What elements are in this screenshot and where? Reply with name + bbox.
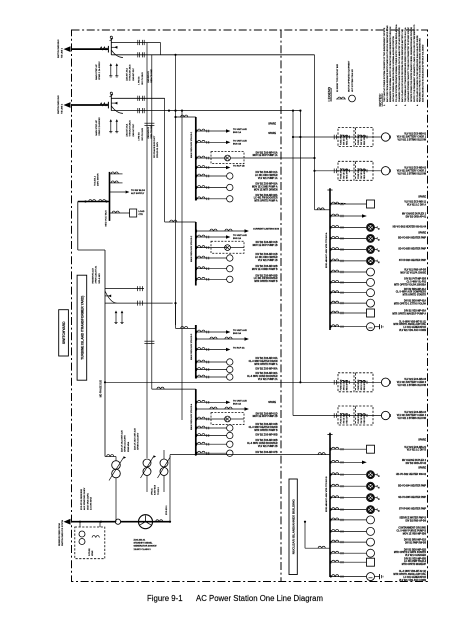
svg-text:VLV 021 LC DIV B: VLV 021 LC DIV B xyxy=(407,450,427,452)
svg-text:LC 401 CIRC WATER: LC 401 CIRC WATER xyxy=(255,256,278,259)
ES1 branch motor circle 2 xyxy=(196,186,198,189)
reserve feed arrowhead xyxy=(64,519,71,525)
svg-text:500-6.9KV: 500-6.9KV xyxy=(99,273,101,284)
svg-text:ZAS-UT-01A UNIT AUX: ZAS-UT-01A UNIT AUX xyxy=(121,430,124,452)
svg-text:MV CHASE DUPLEX 1: MV CHASE DUPLEX 1 xyxy=(402,213,427,216)
svg-text:TO UNIT AUX: TO UNIT AUX xyxy=(233,128,247,131)
wire down-leg x77.8 xyxy=(77,202,79,251)
ES3 branch arrow 1 xyxy=(196,331,198,334)
svg-text:DIV B2 ZOS-MP-02A: DIV B2 ZOS-MP-02A xyxy=(256,183,278,186)
svg-text:FUSE XFER: FUSE XFER xyxy=(358,168,360,179)
svg-text:REG XFMR: REG XFMR xyxy=(364,413,366,424)
svg-text:DIV B2 ZOS-MP-01B: DIV B2 ZOS-MP-01B xyxy=(256,254,278,256)
ES4 branch motor circle 4 xyxy=(196,452,198,455)
svg-text:TO RW BLDG: TO RW BLDG xyxy=(131,190,145,192)
bus A row 11 load center xyxy=(330,312,332,315)
svg-text:480V SWGR: 480V SWGR xyxy=(98,173,100,186)
wire MD phase bus drop x105 xyxy=(104,250,106,457)
svg-text:SWITCHYARD: SWITCHYARD xyxy=(62,321,66,344)
svg-text:BUS 4A: BUS 4A xyxy=(233,403,241,406)
ES bus 4 (1PB-ES-4) xyxy=(195,389,197,455)
svg-text:ISO PH BUS: ISO PH BUS xyxy=(142,128,144,141)
svg-text:SW 1E UPS: SW 1E UPS xyxy=(344,379,346,390)
svg-text:DIV B2 BRS-MP-01A: DIV B2 BRS-MP-01A xyxy=(404,288,426,291)
svg-text:CTR: CTR xyxy=(139,214,144,216)
svg-text:VLV 021 PUMP 1A: VLV 021 PUMP 1A xyxy=(258,177,278,180)
wire drop x314.5 (to feeder B and bus A) xyxy=(314,55,316,210)
wire drop x300.4 (to feeder C) xyxy=(299,111,301,383)
svg-text:HD-VO-B02 HEATER 009-01-04: HD-VO-B02 HEATER 009-01-04 xyxy=(393,226,427,229)
svg-text:FUSE XFER: FUSE XFER xyxy=(341,134,343,145)
drawing frame border (dash-dot) xyxy=(72,30,428,582)
svg-text:TO RCP 2A: TO RCP 2A xyxy=(233,347,245,350)
ES1 feed breaker xyxy=(176,116,196,118)
svg-text:MTR OPRTD 2 ANTS STARTR: MTR OPRTD 2 ANTS STARTR xyxy=(394,551,426,554)
generator breaker cluster 2 xyxy=(111,102,117,104)
ES1 branch motor circle 1 xyxy=(196,175,198,178)
svg-text:UNIT AUX XFMRS ALL BKRS SHOWN: UNIT AUX XFMRS ALL BKRS SHOWN IN NORMAL … xyxy=(392,36,395,102)
svg-text:VLV 021 ECS-MB-01: VLV 021 ECS-MB-01 xyxy=(404,134,427,136)
disconnect bar T1 xyxy=(107,46,109,53)
svg-text:TO UNIT AUX: TO UNIT AUX xyxy=(233,400,247,403)
svg-text:DIV B2 ZOS-MP-07B: DIV B2 ZOS-MP-07B xyxy=(256,452,278,454)
main transformer riser 1 xyxy=(110,38,112,55)
svg-text:DIV B2 ZOS-MP-06A: DIV B2 ZOS-MP-06A xyxy=(256,372,278,375)
svg-text:SW 1E UPS: SW 1E UPS xyxy=(361,412,363,423)
svg-text:VLV 021 ECS-MB-04: VLV 021 ECS-MB-04 xyxy=(404,411,427,414)
svg-text:REG XFMR: REG XFMR xyxy=(347,134,349,145)
svg-text:SPARE: SPARE xyxy=(418,466,426,469)
ES bus 3 (1PB-ES-3) xyxy=(195,325,197,379)
future equipment dashed box xyxy=(75,527,105,559)
svg-text:VLV 021 1 BTRNS BLDOW: VLV 021 1 BTRNS BLDOW xyxy=(397,418,426,420)
isophase bus line 2b xyxy=(111,110,300,112)
svg-text:ISO PH BUS: ISO PH BUS xyxy=(142,72,144,85)
svg-text:DIV B2 BDS-MP-02A: DIV B2 BDS-MP-02A xyxy=(404,300,426,303)
svg-text:DIV B2 RNS-AP-B6: DIV B2 RNS-AP-B6 xyxy=(405,519,426,522)
svg-text:MOV 1E RCP PUMP 1B: MOV 1E RCP PUMP 1B xyxy=(253,245,278,247)
svg-text:THE NORMAL AUX TRANSFORMERS AR: THE NORMAL AUX TRANSFORMERS ARE SIZED FO… xyxy=(404,27,407,102)
wire drop x293 (feeder A to D) xyxy=(292,111,294,416)
ES2 branch motor circle 2 xyxy=(196,267,198,270)
svg-text:SPARE: SPARE xyxy=(418,232,426,235)
bus B row 2 arrow xyxy=(330,461,332,464)
svg-text:MOV 1E VOLPA CHASE: MOV 1E VOLPA CHASE xyxy=(400,272,426,275)
ES4 branch RCP 2B dashed box xyxy=(196,418,198,421)
reserve feed line from switchyard xyxy=(71,521,170,523)
svg-text:1PB-ES-01 24KV: 1PB-ES-01 24KV xyxy=(157,141,159,158)
svg-text:DIV B2 PHT-MP-3B5: DIV B2 PHT-MP-3B5 xyxy=(404,279,426,281)
svg-text:REG XFMR: REG XFMR xyxy=(347,168,349,179)
isophase bus line 2a xyxy=(111,97,164,99)
svg-text:AUX XFMR 500-13.8KV: AUX XFMR 500-13.8KV xyxy=(83,487,86,510)
bus B row 7 pump circle xyxy=(330,519,332,522)
wire x160.5 connector xyxy=(160,43,162,55)
bus B standby feed xyxy=(304,522,306,549)
reserve xfmr arresters xyxy=(115,313,117,323)
legend motor symbol xyxy=(349,95,356,102)
svg-text:MAIN STEP-UP: MAIN STEP-UP xyxy=(95,64,98,80)
svg-text:30/40 MVA: 30/40 MVA xyxy=(127,441,130,452)
svg-text:THROUGH-BUS: THROUGH-BUS xyxy=(130,120,132,137)
zone label TURBINE ISLAND /TRANSFORMER YARD xyxy=(77,275,87,380)
svg-text:DIV B2 BRS-MP-01B: DIV B2 BRS-MP-01B xyxy=(404,540,426,542)
svg-text:SW 1E UPS: SW 1E UPS xyxy=(344,134,346,145)
bus A row 2 arrow xyxy=(330,215,332,218)
svg-text:REG XFMR: REG XFMR xyxy=(364,380,366,391)
svg-text:XFMR: XFMR xyxy=(92,550,94,556)
svg-text:CL-3 480V SL-P32: CL-3 480V SL-P32 xyxy=(406,280,426,283)
svg-text:VLV 021 PUMP 2B: VLV 021 PUMP 2B xyxy=(258,446,278,448)
svg-text:BUS 1A: BUS 1A xyxy=(233,131,241,134)
svg-text:DIV B2 BDS-MP-02B: DIV B2 BDS-MP-02B xyxy=(404,549,426,551)
svg-text:ZAS-MT-01C: ZAS-MT-01C xyxy=(132,68,135,81)
svg-text:VLV 021 BATTERY CHGR 1: VLV 021 BATTERY CHGR 1 xyxy=(397,136,427,139)
ES3 tie breaker line xyxy=(196,338,198,341)
UAT B windings xyxy=(160,459,168,467)
svg-text:ZAS-MT-01C: ZAS-MT-01C xyxy=(132,123,135,136)
svg-text:MTR OPRTD PUMP B: MTR OPRTD PUMP B xyxy=(254,281,278,283)
svg-text:VLV 021 ECS-MB-03: VLV 021 ECS-MB-03 xyxy=(404,379,427,381)
open breaker circle on reserve line xyxy=(115,519,120,524)
bus B row 6 motor xyxy=(330,508,332,511)
svg-text:MAIN GEN BUS 1PB-ES-3: MAIN GEN BUS 1PB-ES-3 xyxy=(190,333,193,360)
ES2 feed breaker xyxy=(165,221,196,223)
svg-text:CL-3 480V COND BOOSTER: CL-3 480V COND BOOSTER xyxy=(247,375,278,378)
svg-text:MTR OPRTD PUMP A: MTR OPRTD PUMP A xyxy=(254,200,277,203)
svg-text:VLV 021 1 BTRNS BLDOW: VLV 021 1 BTRNS BLDOW xyxy=(397,385,426,387)
ES3 branch motor circle 3 xyxy=(196,376,198,379)
svg-text:REG XFMR: REG XFMR xyxy=(364,134,366,145)
svg-text:35/47 MVA OA/FA: 35/47 MVA OA/FA xyxy=(86,493,89,510)
svg-text:1 PB ES: 1 PB ES xyxy=(139,132,141,141)
ES4 tie breaker line xyxy=(196,408,198,411)
legend breaker symbol xyxy=(338,97,342,99)
bus B row 12 vital xfmr xyxy=(330,575,332,578)
svg-text:ST-VP-B23 HEATER PMP: ST-VP-B23 HEATER PMP xyxy=(399,259,427,262)
bus B row 8 pump circle xyxy=(330,530,332,533)
svg-text:VLV 021 ECS-MB-21: VLV 021 ECS-MB-21 xyxy=(404,447,427,449)
svg-text:CURRENT LIMITING BUS: CURRENT LIMITING BUS xyxy=(253,229,280,231)
feeder A class-1E battery charger 1 xyxy=(293,136,381,138)
svg-text:NUCLEAR ISLAND/ANNEX BUILDING: NUCLEAR ISLAND/ANNEX BUILDING xyxy=(292,499,296,555)
svg-text:CL-3 480V AUX COMPRESS: CL-3 480V AUX COMPRESS xyxy=(396,291,427,294)
svg-text:VLV 021 BATTERY CHGR 2: VLV 021 BATTERY CHGR 2 xyxy=(397,169,427,172)
UAT A windings xyxy=(143,459,151,467)
svg-text:BUS 1B: BUS 1B xyxy=(233,144,241,146)
ES3 branch motor circle 1 xyxy=(196,361,198,364)
svg-text:ZAS-MT-01A: ZAS-MT-01A xyxy=(126,123,129,136)
svg-text:MTR OPRTD 1 ETTHS VOLPA: MTR OPRTD 1 ETTHS VOLPA xyxy=(394,303,426,306)
svg-text:MAIN STEP-UP: MAIN STEP-UP xyxy=(95,120,98,136)
bus A row 7 pump circle xyxy=(330,271,332,274)
bus A row 9 pump circle xyxy=(330,291,332,294)
svg-text:SW 1E UPS: SW 1E UPS xyxy=(344,412,346,423)
svg-text:MOV 1E MTR DRIVEN: MOV 1E MTR DRIVEN xyxy=(254,189,278,191)
svg-text:OFFSITE POWER THE ONSITE STAND: OFFSITE POWER THE ONSITE STANDBY DIESEL … xyxy=(410,26,413,102)
svg-text:XFMR 2 24-500KV: XFMR 2 24-500KV xyxy=(99,117,101,136)
svg-text:SUPPLY THE PERMANENT NONSAFETY: SUPPLY THE PERMANENT NONSAFETY LOADS UPO… xyxy=(413,24,416,102)
svg-text:MTR OPRTD VOLPA 2SHSBA: MTR OPRTD VOLPA 2SHSBA xyxy=(394,283,426,286)
svg-text:XFMR ZAS-RT-01: XFMR ZAS-RT-01 xyxy=(95,265,98,283)
svg-text:ZOS-ES-1: ZOS-ES-1 xyxy=(166,505,168,515)
svg-text:LC 401 CIRC WATER: LC 401 CIRC WATER xyxy=(255,174,278,177)
ES1 branch RCP 1A dashed box xyxy=(196,157,198,160)
svg-text:CL-3 480V VBS-MT-02 (2): CL-3 480V VBS-MT-02 (2) xyxy=(399,570,426,573)
ES2 branch RCP 2A dashed box xyxy=(196,246,198,249)
svg-text:TURBINE ISLAND /TRANSFORMER YA: TURBINE ISLAND /TRANSFORMER YARD) xyxy=(80,296,84,360)
aux sub-bus feed from left xyxy=(78,201,110,203)
svg-text:1 PB ES: 1 PB ES xyxy=(139,76,141,85)
svg-text:SPARE: SPARE xyxy=(418,439,426,442)
generator output riser x170 xyxy=(169,455,171,522)
svg-text:EDS2-MB-MCC 480V MTR CTR BUS B: EDS2-MB-MCC 480V MTR CTR BUS B xyxy=(326,476,328,512)
svg-text:THE PLANT AC POWER SYSTEM CONS: THE PLANT AC POWER SYSTEM CONSISTS OF TW… xyxy=(383,27,386,102)
svg-text:DIV B2 ZOS-MP-05B: DIV B2 ZOS-MP-05B xyxy=(256,435,278,437)
svg-text:CL-3 480V HEATER DRAIN: CL-3 480V HEATER DRAIN xyxy=(249,360,278,363)
reserve aux transformer group xyxy=(105,288,137,290)
svg-text:EACH CLASS 1E DC BUS IS FED FR: EACH CLASS 1E DC BUS IS FED FROM ITS OWN… xyxy=(401,29,404,102)
wire maintenance tie drop x182 xyxy=(181,111,183,420)
svg-text:THROUGH-BUS: THROUGH-BUS xyxy=(130,64,132,81)
generator breaker cluster 1 xyxy=(111,46,117,48)
wire ES2 feed drop x164.6 xyxy=(164,98,166,222)
svg-text:6.9KV BUS: 6.9KV BUS xyxy=(155,484,157,495)
ES2 branch motor circle 1 xyxy=(196,257,198,260)
svg-text:AC Power Station One Line Diag: AC Power Station One Line Diagram xyxy=(196,594,323,603)
surge arrester pair 2 xyxy=(110,121,112,131)
zone label SWITCHYARD xyxy=(59,310,69,356)
ES3 branch motor circle 2 xyxy=(196,368,198,371)
svg-text:LC 401 PMP TRLR-2: LC 401 PMP TRLR-2 xyxy=(404,560,427,563)
svg-text:MOV 1E COND PUMP B: MOV 1E COND PUMP B xyxy=(252,269,278,271)
off-page arrow to switchyard bus 1 xyxy=(71,48,108,50)
svg-text:MAIN GEN BUS 1PB-ES-2: MAIN GEN BUS 1PB-ES-2 xyxy=(190,235,193,262)
svg-text:CL-3 480V HEATER DRAIN: CL-3 480V HEATER DRAIN xyxy=(249,426,278,429)
aux spare branch 2 xyxy=(110,182,123,184)
svg-text:AND RECONNECTED IN SEQUENCE AF: AND RECONNECTED IN SEQUENCE AFTER BUS VO… xyxy=(422,44,425,102)
svg-text:TO UNIT AUX: TO UNIT AUX xyxy=(233,140,247,143)
480V bus A (nuclear island MCC) xyxy=(329,188,331,330)
svg-text:SD-VO-B65 HEATER PMP: SD-VO-B65 HEATER PMP xyxy=(398,496,426,499)
svg-text:MTR OPRTD PUMP A: MTR OPRTD PUMP A xyxy=(254,363,277,366)
svg-text:HD-VO-B22 HEATER 009-02: HD-VO-B22 HEATER 009-02 xyxy=(396,473,427,476)
svg-text:NON CLASS 1E LOADS ON THE SEQU: NON CLASS 1E LOADS ON THE SEQUENCER SHAL… xyxy=(416,35,419,102)
generator breaker xyxy=(156,520,160,522)
wire ES3 feed drop x173 xyxy=(175,303,177,328)
svg-text:FUSE XFER: FUSE XFER xyxy=(358,379,360,390)
bus B row 4 motor xyxy=(330,485,332,488)
svg-text:TIE LINE 1: TIE LINE 1 xyxy=(61,47,63,58)
svg-text:SPARE: SPARE xyxy=(268,123,276,126)
svg-text:TIE LINE 2: TIE LINE 2 xyxy=(61,103,63,114)
bus B row 9 pump circle xyxy=(330,541,332,544)
ES2 tie breaker line xyxy=(196,230,198,233)
wire RCP row extension to x314.5 xyxy=(244,157,315,159)
svg-text:REG XFMR: REG XFMR xyxy=(364,168,366,179)
isophase bus line 1b xyxy=(111,54,314,56)
wire jog y250 xyxy=(78,249,105,251)
svg-text:DIV B2 ZOS-MP-02B: DIV B2 ZOS-MP-02B xyxy=(256,266,278,268)
aux arrow branch xyxy=(110,191,126,193)
ES3 feed breaker xyxy=(176,327,196,329)
svg-text:VLV 021 BATTERY CHGR 3: VLV 021 BATTERY CHGR 3 xyxy=(397,381,427,384)
svg-text:SWITCHYARD BUS: SWITCHYARD BUS xyxy=(57,39,60,58)
svg-text:DIV B2 ZOS-MP-01A: DIV B2 ZOS-MP-01A xyxy=(256,171,278,174)
off-page arrow to switchyard bus 2 xyxy=(71,104,108,106)
ES4 branch motor circle 2 xyxy=(196,434,198,437)
svg-text:Figure 9-1: Figure 9-1 xyxy=(147,594,183,603)
svg-text:CL-3 480V COND BOOSTER: CL-3 480V COND BOOSTER xyxy=(247,442,278,445)
svg-text:VLV 021 RNS-AP-B5: VLV 021 RNS-AP-B5 xyxy=(404,269,427,272)
standby diesel generator xyxy=(139,515,153,529)
svg-text:SWITCHYARD 8YS SYSTM: SWITCHYARD 8YS SYSTM xyxy=(61,520,64,546)
svg-text:13.8KV CLASS 3: 13.8KV CLASS 3 xyxy=(134,548,152,551)
svg-text:MOV 1E COND PUMP A: MOV 1E COND PUMP A xyxy=(252,185,278,188)
svg-text:VLV 021 1 BTRNS BLDOW: VLV 021 1 BTRNS BLDOW xyxy=(397,173,426,175)
svg-text:MTR OPRTD STARTR: MTR OPRTD STARTR xyxy=(403,294,427,297)
svg-text:MTR OPRTD ANCILLARY DSL: MTR OPRTD ANCILLARY DSL xyxy=(393,573,426,576)
svg-text:NOTES:: NOTES: xyxy=(379,93,383,106)
svg-text:XFMR A 24-6.9KV: XFMR A 24-6.9KV xyxy=(124,435,127,452)
svg-text:MOTOR OPERATED EQUIPMENT: MOTOR OPERATED EQUIPMENT xyxy=(348,60,351,92)
svg-text:TOS-ES-1: TOS-ES-1 xyxy=(94,175,96,186)
aux box branch xyxy=(110,212,130,214)
ES1 branch spare arrow 1 xyxy=(196,130,198,133)
ES bus 1 (1PB-ES-1) xyxy=(195,117,197,201)
svg-text:DIV B2 ZOS-MP-05A: DIV B2 ZOS-MP-05A xyxy=(256,368,278,371)
svg-text:VLV 021 BATTERY CHGR 4: VLV 021 BATTERY CHGR 4 xyxy=(397,414,427,417)
svg-text:ZAS-MT-01A: ZAS-MT-01A xyxy=(126,68,129,81)
svg-text:ST-VP-B43 HEATER PMP: ST-VP-B43 HEATER PMP xyxy=(399,508,427,511)
bus A row 8 pump circle xyxy=(330,281,332,284)
ES1 branch spare arrow 2 xyxy=(196,141,198,144)
ES3 branch arrow 2 xyxy=(196,348,198,351)
svg-text:DIV B2 ORB-AP-01: DIV B2 ORB-AP-01 xyxy=(406,216,427,219)
svg-text:VLV 021 1 BTRNS BLDOW: VLV 021 1 BTRNS BLDOW xyxy=(397,140,426,142)
ES2 branch arrow 1 xyxy=(196,236,198,239)
svg-text:VLV 021 VDS ASO CONN: VLV 021 VDS ASO CONN xyxy=(399,579,426,582)
ES4 feed breaker xyxy=(152,388,196,390)
svg-text:BREAKERS THE NORMAL SUPPLY IS: BREAKERS THE NORMAL SUPPLY IS FROM THE M… xyxy=(389,26,392,102)
svg-text:LC 401 FW BOOSTER: LC 401 FW BOOSTER xyxy=(254,197,278,200)
svg-text:MTR OPRTD ANCILLARY DSL: MTR OPRTD ANCILLARY DSL xyxy=(393,323,426,326)
ES4 branch motor circle 1 xyxy=(196,427,198,430)
svg-text:SPARE: SPARE xyxy=(418,195,426,198)
svg-text:XFMR B 24-6.9KV: XFMR B 24-6.9KV xyxy=(138,432,140,450)
bus A row 3 motor xyxy=(330,226,332,229)
svg-text:SPARE: SPARE xyxy=(268,132,276,135)
svg-text:DIV B2 ZAS-MP-01B: DIV B2 ZAS-MP-01B xyxy=(256,241,278,244)
svg-text:DIV B2 VES-MP-05A: DIV B2 VES-MP-05A xyxy=(404,310,426,313)
ES2 branch motor circle 3 xyxy=(196,278,198,281)
svg-text:REG XFMR: REG XFMR xyxy=(347,380,349,391)
svg-text:MOV 1E RCP PUMP 2B: MOV 1E RCP PUMP 2B xyxy=(253,416,278,418)
zone divider turbine/nuclear island (dash-dot) xyxy=(280,30,282,582)
svg-text:DIV B2 ZAS-MP-01A: DIV B2 ZAS-MP-01A xyxy=(256,151,278,154)
svg-text:CONTAINMENT GROUND: CONTAINMENT GROUND xyxy=(398,527,426,530)
svg-text:Z=9.0% 60HZ: Z=9.0% 60HZ xyxy=(91,496,93,510)
svg-text:MD PHASE BUS: MD PHASE BUS xyxy=(99,379,102,397)
zone label NUCLEAR ISLAND/ANNEX BUILDING xyxy=(289,479,297,575)
bus B row 5 motor xyxy=(330,496,332,499)
bus B row 10 pump circle xyxy=(330,552,332,555)
svg-text:LEGEND: LEGEND xyxy=(327,86,331,101)
svg-text:TO RCP 1B: TO RCP 1B xyxy=(233,166,245,168)
wire UAT-B primary drop x151.8 xyxy=(151,55,153,389)
svg-text:REQUIRED TO PROTECT THE CONNEC: REQUIRED TO PROTECT THE CONNECTED DIESEL… xyxy=(419,38,422,102)
bus A row 12 vital xfmr xyxy=(330,325,332,328)
svg-text:52 SWGR TYPE CIRCUIT BKR: 52 SWGR TYPE CIRCUIT BKR xyxy=(337,63,339,92)
svg-text:SPARE: SPARE xyxy=(268,401,276,404)
svg-text:MAIN GEN BUS 1PB-ES-1: MAIN GEN BUS 1PB-ES-1 xyxy=(190,131,193,158)
svg-text:FUSE XFER: FUSE XFER xyxy=(341,379,343,390)
bus A row 1 load center xyxy=(330,203,332,206)
svg-text:CHANGER CONTROLS ARE PROVIDED: CHANGER CONTROLS ARE PROVIDED ON THE MAI… xyxy=(398,27,401,102)
svg-text:VLV 021 VDS ASO CONN: VLV 021 VDS ASO CONN xyxy=(399,329,426,332)
svg-text:FOLLOW SYSTEM OPERATE NORMAL P: FOLLOW SYSTEM OPERATE NORMAL POWER SUPPL… xyxy=(395,24,398,102)
aux spare branch 1 xyxy=(110,173,123,175)
svg-text:CL-3 480V VBS-MT-01 (1): CL-3 480V VBS-MT-01 (1) xyxy=(399,320,426,323)
svg-text:VLV 021 PUMP 2A: VLV 021 PUMP 2A xyxy=(258,378,278,381)
svg-text:FUSE XFER: FUSE XFER xyxy=(341,412,343,423)
svg-text:VLV 021 LC DIV A: VLV 021 LC DIV A xyxy=(407,204,426,207)
svg-text:REG XFMR: REG XFMR xyxy=(347,413,349,424)
svg-text:LC 401 GENERATOR: LC 401 GENERATOR xyxy=(403,326,426,329)
bus B row 1 load center xyxy=(330,448,332,451)
svg-text:ZOS-MS-01: ZOS-MS-01 xyxy=(134,540,146,542)
svg-text:SW 1E UPS: SW 1E UPS xyxy=(344,168,346,179)
svg-text:SWITCHYARD BUS: SWITCHYARD BUS xyxy=(57,95,60,114)
junction dots on bus 2b xyxy=(168,110,170,112)
svg-text:MOV 1E RCP PUMP 1A: MOV 1E RCP PUMP 1A xyxy=(253,154,278,157)
svg-text:SW 1E UPS: SW 1E UPS xyxy=(361,168,363,179)
ES4 branch arrow 1 xyxy=(196,401,198,404)
svg-text:ISO PHASE BUS DUCT: ISO PHASE BUS DUCT xyxy=(153,135,156,158)
wire ES1/ES3 feed drop x175.5 xyxy=(175,55,177,325)
svg-text:EACH FED FROM A SEPARATE SWITC: EACH FED FROM A SEPARATE SWITCHYARD BUS … xyxy=(386,25,389,102)
svg-text:XFMR 1 24-500KV: XFMR 1 24-500KV xyxy=(99,61,101,80)
ES4 branch motor circle 3 xyxy=(196,443,198,446)
svg-text:MTR OPRTD PUMP B: MTR OPRTD PUMP B xyxy=(254,430,278,432)
junction dot on bus 1b xyxy=(174,54,176,56)
ES1 branch arrow 3 xyxy=(196,166,198,169)
svg-text:VLV 021 CHARGER: VLV 021 CHARGER xyxy=(405,554,426,557)
svg-text:CL-3 480V PURGE PUMP B: CL-3 480V PURGE PUMP B xyxy=(397,529,427,532)
svg-text:NUT SYSTEM CONN NO: NUT SYSTEM CONN NO xyxy=(352,69,354,92)
svg-text:BUS 3A: BUS 3A xyxy=(233,332,241,335)
svg-text:ALT SUPPLY: ALT SUPPLY xyxy=(131,192,145,195)
surge arrester pair 1 xyxy=(110,66,112,76)
svg-text:MTR OPRTD MAKEUP PUMP A: MTR OPRTD MAKEUP PUMP A xyxy=(392,313,426,316)
svg-text:FUSE XFER: FUSE XFER xyxy=(358,134,360,145)
svg-text:MOV 1E VBS-MP-3B6: MOV 1E VBS-MP-3B6 xyxy=(403,533,427,535)
svg-text:VLV 021 ECS-MB-11: VLV 021 ECS-MB-11 xyxy=(404,202,426,204)
svg-text:MTR OPRTD MAKEUP: MTR OPRTD MAKEUP xyxy=(402,563,427,566)
bus A row 6 motor xyxy=(330,260,332,263)
svg-text:DIV B2 ZOS-MP-03B: DIV B2 ZOS-MP-03B xyxy=(256,275,278,277)
wire UAT-A primary drop x147 xyxy=(146,43,148,459)
svg-text:RESERVE FEED FROM: RESERVE FEED FROM xyxy=(59,523,61,546)
svg-text:DIV B2 ORB-AP-02: DIV B2 ORB-AP-02 xyxy=(406,462,427,465)
svg-text:FUSE XFER: FUSE XFER xyxy=(341,168,343,179)
bus B row 11 load center xyxy=(330,561,332,564)
aux sub-bus vertical xyxy=(109,172,111,221)
feeder D class-1E battery charger 4 xyxy=(293,415,381,417)
svg-text:MED VOLT BUS: MED VOLT BUS xyxy=(106,210,108,227)
svg-text:TO ES-3: TO ES-3 xyxy=(158,486,160,495)
isophase bus line 1a xyxy=(111,42,160,44)
